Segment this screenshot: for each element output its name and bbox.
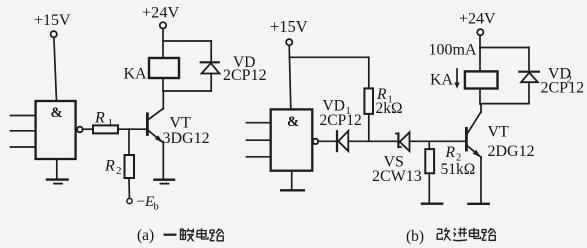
svg-text:(b): (b) (406, 228, 424, 245)
svg-text:KA: KA (430, 72, 454, 89)
svg-text:R: R (104, 158, 115, 175)
svg-text:2CP12: 2CP12 (320, 112, 362, 129)
svg-text:51kΩ: 51kΩ (441, 161, 476, 178)
svg-text:2DG12: 2DG12 (488, 143, 535, 160)
svg-text:1: 1 (108, 117, 114, 129)
svg-text:&: & (51, 105, 63, 121)
svg-text:+24V: +24V (142, 2, 179, 21)
svg-text:2CP12: 2CP12 (541, 80, 585, 97)
svg-text:b: b (154, 202, 159, 213)
svg-text:2CW13: 2CW13 (372, 168, 422, 185)
svg-text:VT: VT (488, 124, 510, 141)
svg-text:R: R (94, 110, 105, 127)
svg-text:VT: VT (170, 115, 192, 132)
svg-text:2: 2 (116, 165, 122, 177)
svg-text:2kΩ: 2kΩ (376, 100, 403, 117)
svg-text:KA: KA (124, 65, 148, 82)
svg-text:−E: −E (137, 194, 155, 210)
svg-text:+15V: +15V (270, 17, 308, 36)
svg-text:+15V: +15V (34, 12, 71, 29)
svg-text:2CP12: 2CP12 (223, 67, 267, 84)
svg-text:&: & (287, 114, 299, 130)
svg-text:R: R (445, 144, 456, 161)
svg-text:100mA: 100mA (429, 41, 477, 58)
svg-text:(a): (a) (137, 227, 154, 244)
svg-text:3DG12: 3DG12 (163, 130, 210, 147)
svg-text:+24V: +24V (459, 11, 496, 28)
